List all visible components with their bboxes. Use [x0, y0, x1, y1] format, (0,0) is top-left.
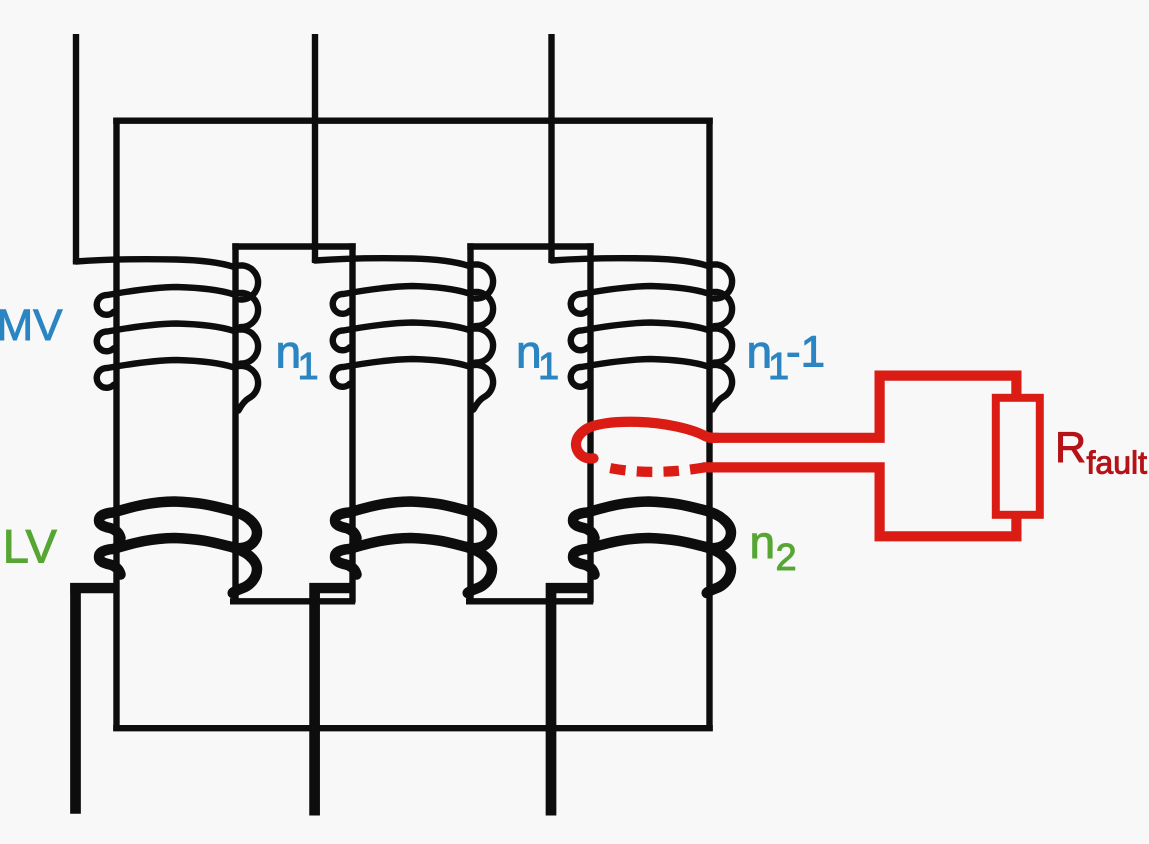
wire LV2 right to LV3 left: [466, 598, 593, 604]
wire LV2 left to exit b: [310, 583, 354, 593]
MV winding 3 (faulted) turn 2: [571, 286, 732, 326]
svg-text:LV: LV: [3, 519, 58, 572]
wire LV1 left to exit a: [70, 583, 115, 593]
fault turn hidden half (dashed): [601, 466, 708, 472]
wire phase B top: [312, 34, 318, 263]
wire bottom bus: [113, 725, 713, 731]
MV winding 2 turn 2: [333, 286, 493, 326]
LV winding 2 turn 2: [335, 538, 492, 593]
MV winding 1 turn 3: [97, 324, 258, 364]
wire connector MV2-MV3: [467, 243, 593, 249]
resistor Rfault body: [996, 398, 1040, 515]
LV winding 3 turn 2: [573, 538, 731, 593]
MV winding 3 (faulted) turn 1: [552, 258, 733, 298]
svg-text:2: 2: [776, 537, 797, 579]
wire LV1 right to LV2 left: [230, 598, 355, 604]
wire fault bottom lead: [703, 467, 1016, 536]
wire rail limb1 right: [232, 243, 238, 602]
MV winding 1 turn 1: [76, 259, 258, 299]
svg-text:MV: MV: [0, 301, 63, 350]
MV winding 1 turn 2: [97, 287, 258, 327]
MV winding 2 turn 4: [333, 359, 493, 410]
wire rail limb1 left: [113, 118, 119, 731]
wire fault top lead: [708, 376, 1016, 438]
LV winding 1 turn 1: [99, 502, 257, 549]
fault turn around MV winding 3 (solid half): [576, 422, 718, 459]
wire top bus (delta closing, MV3 right to MV1 left): [113, 117, 713, 123]
wire connector MV1-MV2: [232, 243, 355, 249]
wire exit phase a: [70, 583, 81, 814]
wire rail limb3 left: [587, 243, 593, 602]
MV winding 1 turn 4: [97, 360, 258, 411]
svg-text:R: R: [1055, 424, 1086, 472]
wire exit phase b: [309, 583, 320, 816]
svg-text:1: 1: [538, 346, 559, 388]
MV winding 3 (faulted) turn 3: [571, 323, 732, 363]
svg-text:1: 1: [298, 346, 319, 388]
MV winding 2 turn 1: [315, 258, 493, 298]
svg-text:-1: -1: [786, 328, 825, 377]
wire exit phase c: [546, 583, 557, 816]
wire phase A top: [73, 34, 79, 265]
wire rail limb2 left: [349, 243, 355, 602]
wire rail limb2 right: [467, 243, 473, 602]
wire LV3 left to exit c: [546, 583, 592, 593]
LV winding 1 turn 2: [99, 538, 257, 593]
svg-text:fault: fault: [1087, 445, 1148, 481]
MV winding 3 (faulted) turn 4: [571, 359, 732, 410]
wire phase C top: [548, 34, 554, 263]
LV winding 3 turn 1: [573, 502, 731, 549]
wire rail limb3 right: [706, 118, 712, 731]
svg-text:n: n: [750, 516, 776, 568]
MV winding 2 turn 3: [333, 323, 493, 363]
LV winding 2 turn 1: [335, 502, 492, 549]
